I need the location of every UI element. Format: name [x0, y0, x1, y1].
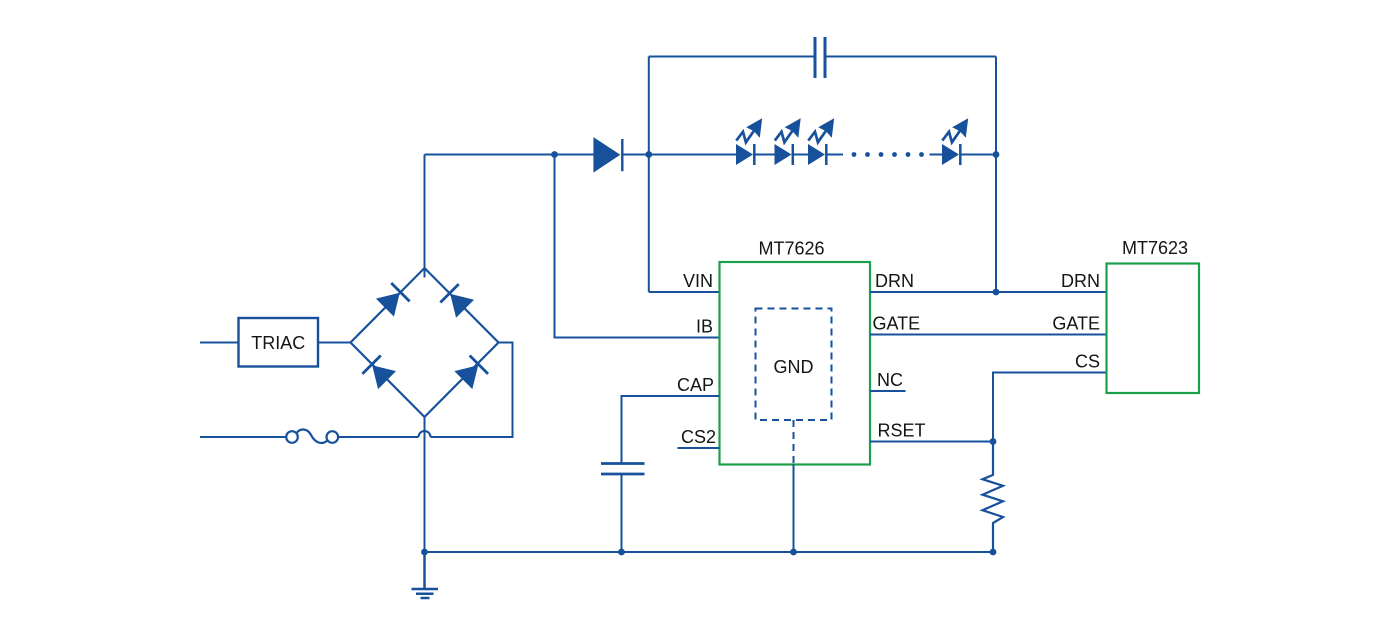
node junction rail C2: [618, 549, 625, 556]
wire bridge top stub: [424, 155, 426, 278]
svg-text:GATE: GATE: [873, 314, 921, 334]
bridge rectifier diamond: [351, 268, 499, 417]
wire GATE to MT7623: [870, 334, 1107, 336]
svg-text:CS2: CS2: [681, 427, 716, 447]
LED1: [736, 118, 762, 165]
fuse F1 wave: [297, 429, 328, 443]
ground symbol: [412, 552, 439, 598]
wire CS2 stub: [678, 447, 720, 449]
wire CAP branch: [622, 396, 720, 463]
wire to LED4: [930, 154, 943, 156]
capacitor C1 plate right: [824, 37, 827, 78]
node junction on main rail: [551, 151, 558, 158]
diode D5 (series): [593, 137, 620, 173]
wire IB branch: [555, 155, 720, 338]
svg-text:VIN: VIN: [683, 271, 713, 291]
IC U2 MT7623 box: [1107, 264, 1200, 394]
svg-text:MT7626: MT7626: [758, 239, 824, 259]
dotted continuation: [852, 152, 924, 157]
wire CS branch: [993, 373, 1107, 442]
diode D5 cathode bar: [621, 139, 623, 171]
GND dashed box: [756, 309, 832, 421]
node junction rail GND: [790, 549, 797, 556]
wire capacitor C2 to rail: [621, 475, 623, 552]
wire LED2 to LED3: [792, 154, 809, 156]
capacitor C2 plate bottom: [601, 473, 645, 476]
svg-text:RSET: RSET: [878, 421, 926, 441]
wire AC neutral input: [200, 436, 286, 438]
node junction DRN: [993, 289, 1000, 296]
bridge diode D3 (upper-right arm): [440, 284, 474, 318]
svg-text:CS: CS: [1075, 352, 1100, 372]
svg-text:DRN: DRN: [1061, 271, 1100, 291]
wire AC live input: [200, 342, 239, 344]
node junction rail R1: [990, 549, 997, 556]
node junction RSET: [990, 438, 997, 445]
wire fuse to hop: [338, 436, 419, 438]
svg-text:GATE: GATE: [1052, 314, 1100, 334]
wire capacitor to top right: [825, 56, 996, 58]
resistor R1: [983, 442, 1004, 553]
wire main rail to diode: [425, 154, 594, 156]
wire right vertical drop: [995, 57, 997, 293]
wire DRN to MT7623: [870, 291, 1107, 293]
IC U1 MT7626 box: [720, 262, 871, 465]
bridge diode D2 (upper-left arm): [376, 283, 410, 317]
fuse F1 circle left: [286, 431, 298, 443]
svg-text:TRIAC: TRIAC: [251, 333, 305, 353]
wire hop over vertical: [419, 431, 431, 437]
wire top left to capacitor: [649, 56, 815, 58]
fuse F1 circle right: [327, 431, 339, 443]
wire VIN vertical branch: [648, 57, 650, 293]
svg-text:CAP: CAP: [677, 375, 714, 395]
wire RSET: [870, 441, 993, 443]
wire bridge bottom to ground rail: [424, 416, 426, 552]
LED4: [942, 118, 968, 165]
wire GND dashed stub: [793, 420, 795, 464]
wire ground rail: [425, 551, 994, 553]
wire LED3 stub: [827, 154, 844, 156]
wire GND solid drop: [793, 464, 795, 552]
svg-text:NC: NC: [877, 370, 903, 390]
LED2: [775, 118, 801, 165]
svg-text:GND: GND: [774, 357, 814, 377]
capacitor C2 plate top: [601, 462, 645, 465]
node junction rail left: [421, 549, 428, 556]
node junction VIN branch: [645, 151, 652, 158]
wire diode to LED string: [624, 154, 737, 156]
node junction LED string end: [993, 151, 1000, 158]
wire TRIAC to bridge: [318, 342, 351, 344]
wire LED4 to right vertical: [961, 154, 997, 156]
wire VIN horizontal: [649, 291, 720, 293]
LED3: [808, 118, 834, 165]
svg-text:IB: IB: [696, 317, 713, 337]
wire NC stub: [870, 390, 906, 392]
wire LED1 to LED2: [753, 154, 775, 156]
svg-text:DRN: DRN: [875, 271, 914, 291]
capacitor C1 plate left: [814, 37, 817, 78]
TRIAC box: [239, 318, 319, 367]
wire hop to bridge right vertex: [431, 343, 513, 438]
bridge diode D4 (lower-right arm): [454, 355, 488, 389]
svg-text:MT7623: MT7623: [1122, 238, 1188, 258]
bridge diode D1 (lower-left arm): [362, 355, 396, 389]
